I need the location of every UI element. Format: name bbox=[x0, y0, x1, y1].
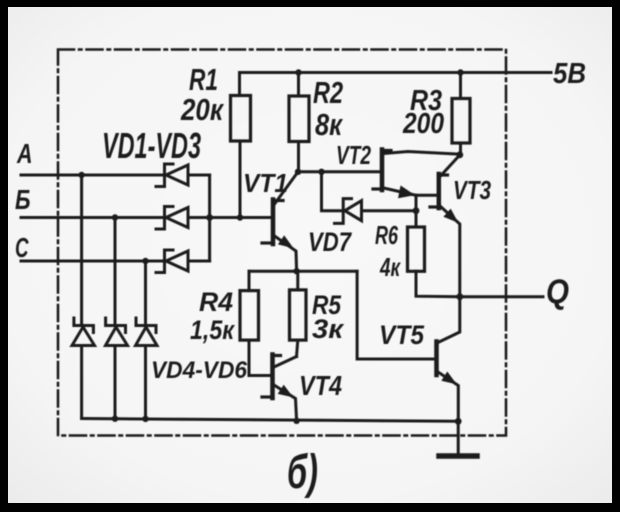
node rail-R2 bbox=[295, 69, 301, 75]
node VT1 collector bbox=[295, 169, 301, 175]
VD7 branch wire bbox=[322, 172, 343, 211]
diode VD4 bbox=[72, 318, 95, 419]
resistor R3 bbox=[459, 73, 462, 99]
VT4 emitter arrow bbox=[278, 385, 294, 398]
node VD7 top bbox=[318, 169, 324, 175]
diode VD1 bbox=[156, 164, 210, 187]
VT2 collector bbox=[384, 152, 460, 155]
VT3 emitter bbox=[440, 206, 460, 297]
VT1 emitter node wire bbox=[249, 270, 357, 273]
wire Б branch down bbox=[114, 218, 117, 325]
IC boundary dash-dot box bbox=[58, 50, 506, 436]
diode VD6 bbox=[136, 318, 158, 419]
node VT1 emitter bbox=[293, 268, 299, 274]
input A wire bbox=[21, 174, 164, 177]
VT1 emitter arrow bbox=[278, 235, 294, 248]
transistor VT3 bbox=[430, 155, 460, 297]
svg-text:R2: R2 bbox=[313, 75, 343, 110]
diode VD7 bbox=[335, 199, 417, 224]
svg-text:200: 200 bbox=[402, 108, 444, 140]
node C branch bbox=[142, 258, 148, 264]
VT2 base net wire bbox=[298, 170, 380, 173]
diode VD5 bbox=[106, 318, 128, 419]
VT4 bar bottom hook bbox=[262, 395, 273, 398]
ground bbox=[439, 453, 477, 459]
svg-text:VD1-VD3: VD1-VD3 bbox=[102, 125, 201, 166]
node rail-R3 bbox=[457, 69, 463, 75]
diode bus wire bbox=[208, 175, 211, 261]
VT1 bar bottom hook bbox=[262, 241, 273, 244]
transistor VT1 bbox=[262, 172, 298, 271]
svg-text:5В: 5В bbox=[553, 58, 586, 90]
VT1 base wire bbox=[210, 216, 271, 219]
node A branch bbox=[78, 172, 84, 178]
VT4 collector bbox=[274, 357, 297, 368]
5V power rail wire bbox=[240, 71, 552, 74]
VT5 emitter bbox=[438, 372, 458, 421]
input C wire bbox=[21, 260, 164, 263]
svg-text:VT5: VT5 bbox=[379, 320, 425, 350]
VT3 emitter arrow bbox=[443, 209, 458, 223]
diode VD2 bbox=[156, 207, 210, 230]
VT3 base wire bbox=[416, 194, 438, 197]
node wire to VD7/R6 bbox=[415, 195, 418, 210]
svg-text:3к: 3к bbox=[312, 314, 344, 344]
VT2 base bar bbox=[380, 150, 385, 191]
svg-text:VT4: VT4 bbox=[299, 370, 342, 401]
resistor R4 bbox=[248, 271, 251, 290]
svg-text:4к: 4к bbox=[379, 252, 401, 282]
transistor VT4 bbox=[262, 355, 297, 421]
VT3 bar bottom hook bbox=[430, 205, 439, 208]
node diode bus bbox=[206, 214, 213, 221]
VT2 bar top hook bbox=[382, 149, 391, 152]
VT5 base branch wire bbox=[357, 271, 433, 359]
svg-text:R4: R4 bbox=[199, 287, 233, 317]
svg-text:VT2: VT2 bbox=[336, 140, 371, 170]
VT3 bar top hook bbox=[439, 173, 448, 176]
svg-text:1,5к: 1,5к bbox=[190, 315, 235, 345]
resistor R5 bbox=[296, 271, 299, 290]
svg-text:VT3: VT3 bbox=[453, 175, 491, 205]
wire A branch down bbox=[80, 175, 83, 324]
svg-text:Б: Б bbox=[15, 184, 31, 215]
svg-text:R6: R6 bbox=[375, 220, 398, 250]
VT2 emitter arrow bbox=[398, 186, 415, 199]
wire C branch down bbox=[144, 261, 147, 324]
VT1 emitter bbox=[275, 236, 297, 271]
node bus VT5 bbox=[455, 418, 462, 425]
VT1 collector bbox=[275, 172, 299, 204]
svg-text:б): б) bbox=[287, 446, 318, 499]
VT2 emitter bbox=[384, 188, 417, 195]
node VD7-R6 bbox=[413, 207, 420, 214]
VT3 collector bbox=[440, 155, 460, 177]
svg-text:VD4-VD6: VD4-VD6 bbox=[151, 357, 248, 384]
svg-text:VT1: VT1 bbox=[243, 168, 288, 198]
VT4 emitter bbox=[274, 385, 297, 421]
transistor VT2 bbox=[373, 150, 460, 199]
VT4 bar top hook bbox=[273, 354, 281, 357]
node R1 base bbox=[237, 214, 243, 220]
input Б wire bbox=[21, 216, 164, 219]
VT5 emitter arrow bbox=[441, 372, 457, 385]
svg-text:C: C bbox=[15, 232, 29, 263]
VT5 collector wire bbox=[438, 297, 460, 343]
VT3 base bar bbox=[437, 174, 442, 208]
svg-text:A: A bbox=[16, 138, 32, 169]
svg-text:VD7: VD7 bbox=[308, 227, 353, 257]
transistor VT5 bbox=[437, 297, 460, 422]
node Б branch bbox=[112, 214, 118, 220]
ground bus wire bbox=[82, 419, 459, 422]
diode VD3 bbox=[156, 250, 210, 273]
resistor R1 bbox=[238, 73, 241, 96]
node R3 bottom bbox=[456, 151, 463, 158]
VT4 base bar bbox=[270, 355, 275, 399]
output Q wire bbox=[460, 295, 543, 298]
VT5 base bar bbox=[434, 342, 439, 376]
svg-text:Q: Q bbox=[546, 273, 569, 311]
svg-text:20к: 20к bbox=[180, 92, 224, 127]
VT1 base bar bbox=[271, 200, 276, 245]
svg-text:8к: 8к bbox=[315, 107, 343, 142]
node Q bbox=[456, 293, 463, 300]
resistor R2 bbox=[297, 73, 300, 97]
VT1 bar top hook bbox=[273, 199, 283, 202]
node bus VD6 bbox=[142, 416, 148, 422]
node bus VD5 bbox=[112, 416, 118, 422]
resistor R6 bbox=[415, 211, 418, 227]
VT2 bar bottom hook bbox=[373, 187, 382, 190]
ground stem bbox=[457, 421, 460, 453]
node bus VT4 bbox=[293, 418, 299, 424]
